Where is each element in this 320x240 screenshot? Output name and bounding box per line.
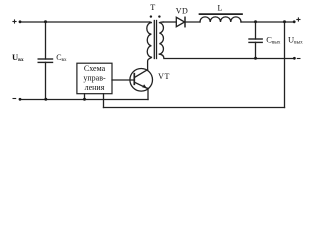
svg-text:L: L: [218, 4, 223, 13]
svg-text:Схема: Схема: [84, 64, 106, 73]
svg-text:ления: ления: [85, 83, 105, 92]
svg-text:T: T: [150, 3, 155, 12]
svg-text:управ-: управ-: [83, 74, 106, 83]
svg-text:VD: VD: [176, 7, 188, 16]
svg-text:VT: VT: [158, 72, 170, 81]
